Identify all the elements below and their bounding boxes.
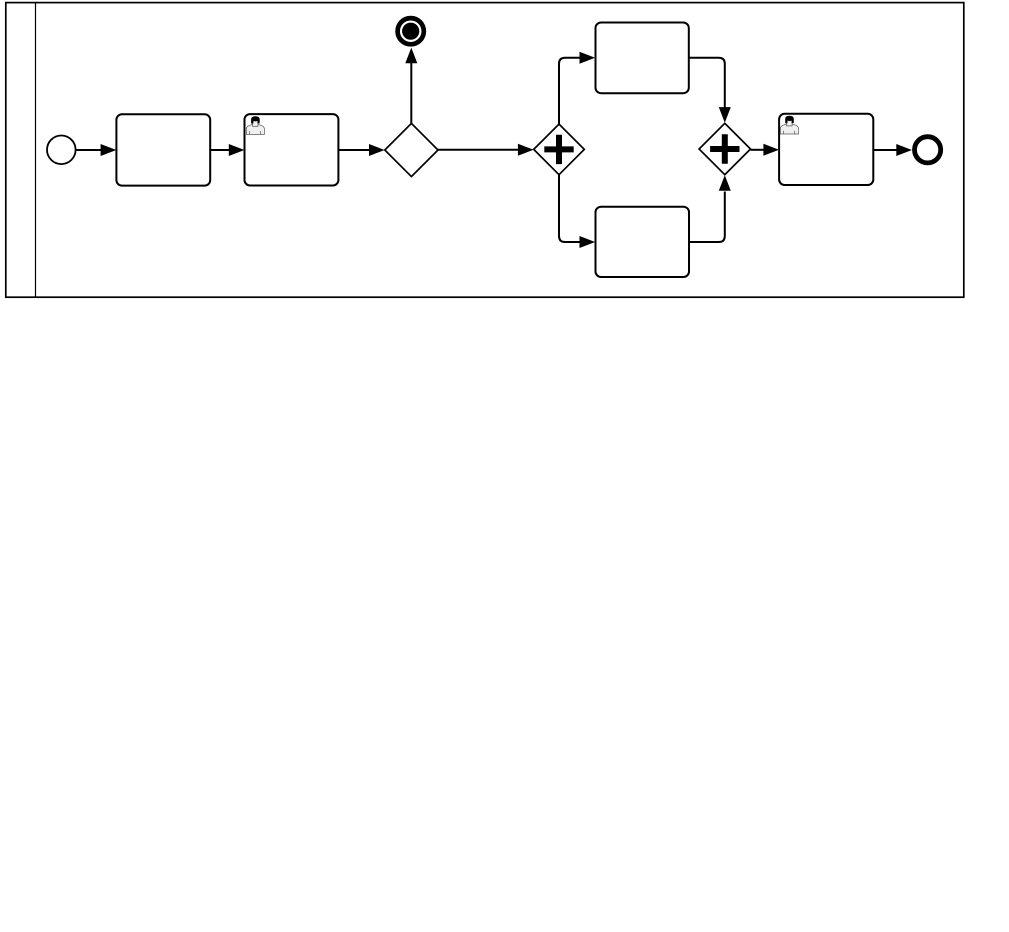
pool boundary <box>6 3 964 298</box>
wire P1 top to task T3 <box>559 58 580 124</box>
user icon of T2 <box>246 116 264 134</box>
lane header separator line <box>35 3 37 298</box>
plus sign of P2 <box>710 134 739 163</box>
wire P1 bottom to task T4 <box>559 175 580 242</box>
wire T4 to parallel gateway P2 <box>689 192 725 243</box>
user icon of T5 <box>780 116 798 134</box>
parallel gateway P1 <box>534 124 585 175</box>
wire T2 to exclusive gateway <box>338 149 370 151</box>
wire G1 up to terminate event <box>410 63 412 124</box>
task T1 <box>116 114 210 185</box>
wire G1 to parallel gateway P1 <box>438 149 519 151</box>
start event <box>47 136 76 165</box>
wire T1 to T2 <box>210 149 230 151</box>
user task T2 <box>245 114 339 185</box>
wire start event to Task1 <box>76 149 101 151</box>
wire T3 to parallel gateway P2 <box>689 58 725 108</box>
plus sign of P1 <box>544 135 573 164</box>
user task T5 <box>779 114 873 185</box>
wire T5 to end event <box>873 149 897 151</box>
wire P2 to user task T5 <box>751 149 765 151</box>
end event <box>915 137 941 163</box>
task T3 (top branch) <box>596 23 689 94</box>
parallel gateway P2 <box>699 123 750 174</box>
exclusive gateway G1 <box>385 123 438 176</box>
terminate end event <box>398 18 424 44</box>
task T4 (bottom branch) <box>596 207 690 277</box>
